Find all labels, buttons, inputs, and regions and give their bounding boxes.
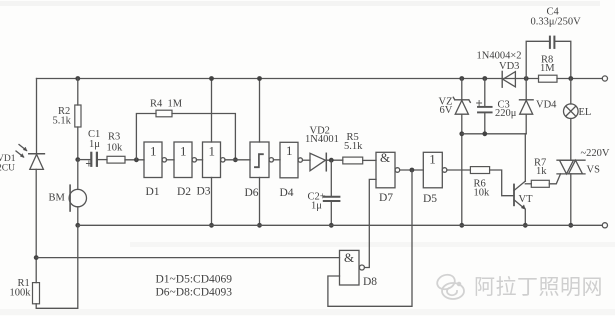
wire left vertical lower (VD1 to R1) — [35, 169, 37, 282]
wire R5 to D7 — [363, 159, 376, 161]
wire R7 to triac gate — [549, 174, 560, 184]
inverter D4 — [280, 142, 302, 178]
wire triac bottom to ground — [570, 174, 572, 225]
wire node to D8 input — [36, 257, 339, 259]
wire sub-rail — [462, 133, 526, 135]
inverter D1 — [144, 142, 167, 178]
junction dot ground at D3 — [209, 223, 214, 228]
junction dot top rail at R2 — [75, 76, 80, 81]
wire D8 feedback loop — [328, 170, 412, 306]
svg-text:&: & — [380, 150, 390, 165]
wire C3 bottom — [484, 113, 486, 134]
node junction left / D8 wire — [34, 255, 39, 260]
inverter D5 — [423, 152, 447, 188]
wire R6 to VT base — [490, 170, 514, 196]
svg-text:D4: D4 — [280, 187, 294, 199]
wire top rail right of R8 — [557, 78, 602, 80]
svg-text:1N4004×2: 1N4004×2 — [477, 51, 522, 62]
capacitor C2 — [324, 197, 340, 201]
wire VT collector riser — [524, 134, 526, 181]
junction dot top rail at D6 — [257, 76, 262, 81]
svg-text:10k: 10k — [474, 188, 491, 199]
terminal bottom-right — [602, 223, 607, 228]
wire R4 left leg — [136, 114, 156, 160]
junction dot ground at BM — [75, 223, 80, 228]
svg-text:1M: 1M — [540, 63, 555, 74]
wire D2 to D3 — [197, 159, 203, 161]
nand gate D7 — [376, 150, 400, 188]
junction dot top rail at C3 — [482, 76, 487, 81]
svg-text:1: 1 — [429, 152, 436, 167]
wire D3 to D6 — [225, 159, 250, 161]
capacitor C1 — [86, 153, 97, 166]
wire EL top — [570, 79, 572, 105]
svg-text:D1~D5:CD4069: D1~D5:CD4069 — [156, 274, 233, 286]
svg-text:&: & — [344, 250, 354, 265]
svg-text:1μ: 1μ — [89, 139, 100, 150]
node C3 sub-rail — [482, 131, 487, 136]
svg-text:~220V: ~220V — [581, 148, 610, 159]
scan streak top — [0, 1, 600, 6]
svg-text:1: 1 — [209, 143, 216, 158]
wire R2 bottom — [77, 127, 79, 160]
svg-text:1μ: 1μ — [311, 201, 322, 212]
wire R2 top — [77, 79, 79, 106]
svg-text:VD4: VD4 — [536, 100, 557, 111]
schmitt gate D6 — [250, 142, 273, 178]
wire D4 to VD2 — [303, 159, 311, 161]
wire D6 supply top — [259, 79, 261, 143]
capacitor C4 loop — [526, 37, 571, 79]
svg-text:BM: BM — [49, 193, 66, 204]
svg-text:VS: VS — [587, 165, 601, 176]
svg-text:VD3: VD3 — [499, 61, 519, 72]
wire D5 to R6 — [447, 169, 471, 171]
svg-text:R4 1M: R4 1M — [150, 99, 183, 110]
diode VD3 — [502, 71, 515, 87]
node C1/BM junction — [75, 157, 80, 162]
node VZ sub-rail — [459, 131, 464, 136]
terminal top-right — [602, 76, 607, 81]
junction dot ground at D6 — [257, 223, 262, 228]
svg-text:D3: D3 — [197, 186, 211, 198]
svg-text:R3: R3 — [108, 132, 120, 143]
scan streak middle — [130, 242, 615, 247]
svg-text:1N4001: 1N4001 — [305, 134, 339, 145]
svg-text:10k: 10k — [107, 143, 124, 154]
resistor R4 — [156, 110, 172, 117]
wire C2 upper — [330, 160, 332, 196]
svg-text:D1: D1 — [146, 186, 160, 198]
junction dot top rail at EL — [568, 76, 573, 81]
diode VD2 — [310, 153, 326, 171]
wire collector to R7 — [525, 183, 531, 185]
junction dot top rail at VD4/C4 — [524, 76, 529, 81]
watermark logo — [435, 272, 464, 299]
junction dot ground at C2 — [329, 223, 334, 228]
zener diode VZ — [453, 97, 470, 114]
wire R4 right leg — [172, 114, 235, 160]
transistor VT — [514, 181, 525, 209]
wire to C1 — [78, 159, 90, 161]
svg-text:D5: D5 — [423, 193, 437, 205]
svg-text:5.1k: 5.1k — [53, 116, 72, 127]
node C2 top — [329, 158, 334, 163]
nand gate D8 — [340, 250, 365, 285]
resistor R7 — [531, 180, 549, 187]
svg-text:D7: D7 — [379, 192, 393, 204]
resistor R1 — [33, 283, 40, 304]
node D7 output — [410, 168, 415, 173]
svg-text:2CU: 2CU — [0, 164, 15, 174]
svg-text:D2: D2 — [177, 186, 191, 198]
diode VD4 — [520, 100, 534, 114]
svg-text:VD1: VD1 — [0, 154, 16, 164]
wire left vertical upper (to VD1) — [36, 79, 38, 154]
svg-text:1: 1 — [286, 143, 293, 158]
svg-text:5.1k: 5.1k — [344, 141, 363, 152]
wire C3 top — [484, 79, 486, 107]
microphone BM — [69, 160, 86, 226]
inverter D2 — [174, 142, 197, 178]
wire ground rail — [78, 224, 603, 226]
wire VD4 bottom — [525, 114, 527, 134]
resistor R2 — [75, 105, 81, 127]
wire VZ top — [461, 79, 463, 100]
wire R1 bottom loop — [36, 225, 78, 308]
wire D3 supply bottom — [211, 178, 213, 226]
photodiode VD1 — [29, 154, 45, 170]
wire VD4 top — [525, 79, 527, 100]
resistor R5 — [343, 157, 363, 164]
svg-text:6V: 6V — [440, 105, 453, 116]
wire R3 to D1 — [125, 159, 144, 161]
wire VT emitter to ground — [524, 209, 526, 225]
wire D1 to D2 — [167, 159, 175, 161]
svg-text:VT: VT — [519, 194, 534, 205]
resistor R6 — [470, 167, 489, 174]
wire top rail left of R8 — [37, 78, 539, 80]
wire EL to triac — [570, 119, 572, 161]
svg-text:1: 1 — [150, 143, 157, 158]
resistor R8 — [539, 75, 558, 82]
junction dot ground at VT — [523, 223, 528, 228]
capacitor C3 — [477, 101, 492, 113]
wire D6 to D4 — [274, 159, 281, 161]
svg-text:220μ: 220μ — [495, 108, 517, 119]
svg-text:0.33μ/250V: 0.33μ/250V — [531, 17, 582, 28]
junction dot top rail at D3 — [209, 76, 214, 81]
svg-text:D6~D8:CD4093: D6~D8:CD4093 — [156, 287, 233, 299]
light arrows into VD1 — [16, 145, 27, 158]
svg-text:D6: D6 — [245, 187, 259, 199]
inverter D3 — [203, 142, 226, 178]
junction dot top rail at VZ — [459, 76, 464, 81]
junction dot ground at VZ line — [459, 223, 464, 228]
svg-text:阿拉丁照明网: 阿拉丁照明网 — [474, 276, 603, 299]
wire D7 output to D5 — [400, 169, 424, 171]
svg-text:EL: EL — [579, 107, 592, 118]
svg-text:100k: 100k — [10, 288, 32, 299]
wire D3 supply top — [211, 79, 213, 143]
wire D6 supply bottom — [259, 178, 261, 226]
svg-text:D8: D8 — [363, 276, 377, 288]
resistor R3 — [107, 156, 125, 163]
wire C2 lower — [330, 202, 332, 226]
scan streak bottom — [0, 309, 615, 315]
svg-text:1k: 1k — [536, 166, 547, 177]
junction dot ground at triac — [568, 223, 573, 228]
node D1 input — [134, 157, 139, 162]
wire VD2 to R5 — [326, 159, 343, 161]
node R4/D6 input — [233, 157, 238, 162]
svg-text:1: 1 — [180, 143, 187, 158]
wire D7 second input from D8 — [365, 179, 376, 267]
wire C1 to R3 — [98, 159, 107, 161]
triac VS — [557, 160, 585, 174]
wire VZ bottom to ground — [461, 114, 463, 225]
lamp EL — [564, 104, 579, 119]
